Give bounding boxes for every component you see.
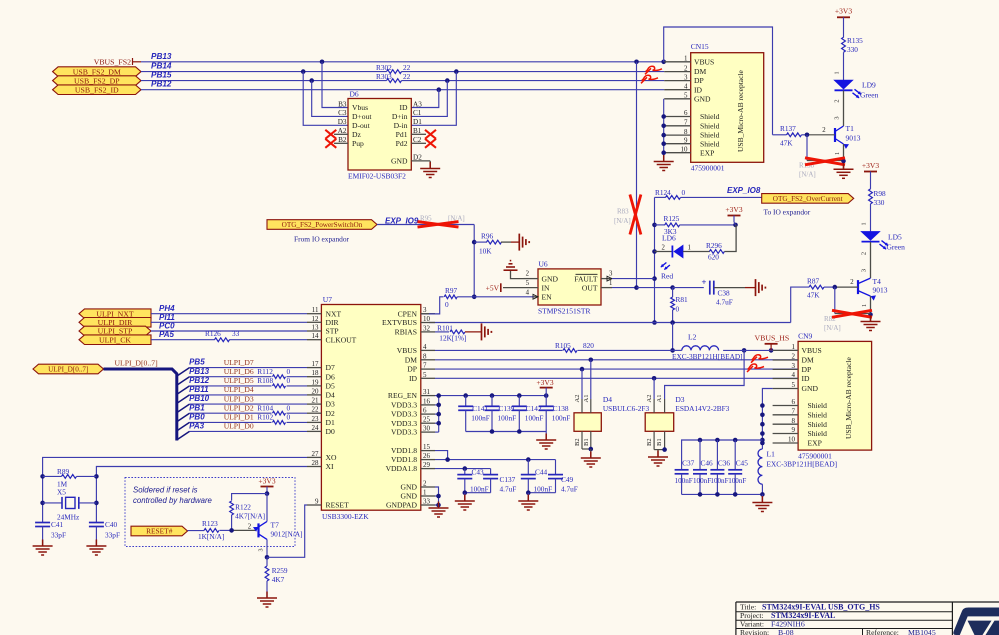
capacitor C45 100nF [728,440,748,494]
led LD5 Green [861,232,906,278]
wire PC0 / ULPI_STP [151,322,307,332]
svg-text:5: 5 [792,381,796,389]
svg-text:10: 10 [681,145,689,153]
ground below D3 [657,451,659,458]
svg-text:Vbus: Vbus [352,103,368,112]
svg-text:IN: IN [542,283,551,292]
svg-text:PB11: PB11 [189,385,209,394]
capacitor C141 100nF [458,396,490,432]
svg-text:PA5: PA5 [159,330,175,339]
svg-text:C49: C49 [561,475,574,484]
svg-text:3: 3 [258,548,265,551]
svg-text:330: 330 [847,45,858,54]
svg-text:10: 10 [423,315,431,323]
svg-text:+3V3: +3V3 [258,476,275,485]
svg-text:Pd2: Pd2 [396,139,408,148]
svg-text:28: 28 [312,459,320,467]
wire PB14 / DM net with series resistor [141,62,664,74]
svg-text:2: 2 [834,99,841,102]
svg-text:C46: C46 [701,458,714,467]
wire PB5 / ULPI_D7 [177,358,307,376]
ground at CN15 shield [663,155,665,162]
resistor R101 12K 1% at RBIAS [435,323,482,342]
svg-text:D7: D7 [326,363,335,372]
svg-text:L1: L1 [767,450,776,459]
svg-text:A1: A1 [583,395,590,403]
svg-text:[N/A]: [N/A] [799,171,816,179]
svg-text:3: 3 [684,73,688,81]
resistor R303 22 [376,72,411,83]
wire CN9 shield/GND tie [760,389,772,450]
wire FAULT vertical net [652,197,657,324]
transistor T4 9013 [850,277,887,321]
svg-text:1: 1 [609,280,612,287]
resistor R87 47K [791,276,858,322]
svg-text:ID: ID [399,103,408,112]
wire C43/C137 ground rail [463,490,491,500]
svg-text:R112: R112 [257,367,273,376]
power +3V3 at VDD3.3 caps [536,378,553,396]
svg-text:100nF: 100nF [710,477,728,485]
dashed option box [125,478,295,547]
svg-text:11: 11 [312,306,319,314]
svg-text:1: 1 [688,244,691,251]
svg-text:620: 620 [708,252,719,261]
svg-text:2: 2 [423,480,427,488]
svg-text:13: 13 [312,324,320,332]
svg-text:D6: D6 [350,90,359,99]
wire VDDA1.8 net [435,466,491,474]
ground right of R96 [518,234,520,251]
bus ULPI_D [104,369,177,441]
capacitor C142 100nF [512,396,544,432]
ground below R259 [266,592,268,599]
svg-text:PB1: PB1 [189,403,205,412]
svg-text:VDDA1.8: VDDA1.8 [386,464,418,473]
wire PB12 / ID net [141,80,664,92]
svg-text:4K7[N/A]: 4K7[N/A] [235,512,265,521]
svg-text:A2: A2 [338,127,347,135]
tag ULPI_CK [79,335,151,345]
svg-text:ULPI_D7: ULPI_D7 [224,358,254,367]
svg-text:3: 3 [834,116,841,119]
svg-text:ULPI_D[0..7]: ULPI_D[0..7] [115,358,158,367]
svg-text:VDD3.3: VDD3.3 [391,428,417,437]
svg-text:26: 26 [423,452,431,460]
ST logo [953,608,999,635]
svg-text:8: 8 [423,352,427,360]
power +3V3 at R135 [835,7,852,38]
ground below L1 rail [761,496,763,503]
svg-text:9012[N/A]: 9012[N/A] [271,529,303,538]
ground below C43 [464,495,466,502]
svg-text:VBUS: VBUS [694,57,714,66]
svg-text:B3: B3 [338,100,347,108]
svg-text:CN9: CN9 [798,331,812,340]
svg-text:LD6: LD6 [662,234,676,243]
ground right of R101 [481,323,483,340]
svg-text:R105: R105 [555,341,571,350]
svg-text:33pF: 33pF [51,530,66,539]
svg-text:B1: B1 [413,127,422,135]
wire DM row [435,358,798,363]
svg-text:31: 31 [423,388,431,396]
resistor R108 0 [257,376,290,388]
svg-text:GNDPAD: GNDPAD [386,501,417,510]
svg-text:B-08: B-08 [778,628,794,635]
capacitor C139 100nF [485,396,517,432]
svg-text:RBIAS: RBIAS [395,328,417,337]
svg-text:R108: R108 [257,376,273,385]
svg-text:C142: C142 [526,404,542,413]
svg-text:1: 1 [423,489,427,497]
no-fit X on D6 pin A2 [325,130,336,139]
svg-text:2: 2 [684,64,688,72]
svg-text:C38: C38 [718,288,731,297]
svg-text:LD5: LD5 [888,233,902,242]
capacitor C44 100nF [521,460,552,494]
svg-text:5: 5 [526,280,530,287]
svg-text:Shield: Shield [808,401,828,410]
resistor R96 10K [474,231,519,255]
svg-text:CPEN: CPEN [398,309,418,318]
svg-text:PB0: PB0 [189,413,205,422]
svg-text:D1: D1 [326,418,335,427]
resistor R135 330 [834,36,864,80]
svg-text:D+out: D+out [352,112,372,121]
svg-text:FAULT: FAULT [574,274,598,283]
wire PB10 / ULPI_D3 [177,394,307,412]
svg-text:GND: GND [694,94,711,103]
tag OTG_FS2_OverCurrent [762,194,854,217]
wire PB13 / ULPI_D6 with R112 [177,367,307,385]
svg-text:USB_FS2_DM: USB_FS2_DM [73,67,121,76]
svg-text:PB5: PB5 [189,358,205,367]
svg-text:PI11: PI11 [159,313,175,322]
svg-text:Revision:: Revision: [740,628,769,635]
title block [736,602,999,635]
svg-text:REG_EN: REG_EN [388,391,418,400]
svg-text:C40: C40 [105,520,118,529]
svg-text:PC0: PC0 [159,322,175,331]
svg-text:15: 15 [423,443,431,451]
inductor L1 EXC-3BP121H[BEAD] [758,449,837,494]
ground below D4 [590,452,592,459]
no-fit resistor R82 crossed out [824,287,872,332]
svg-text:1: 1 [834,71,841,74]
svg-text:ULPI_CK: ULPI_CK [99,335,131,344]
svg-text:OUT: OUT [582,283,598,292]
svg-text:R96: R96 [481,231,494,240]
svg-text:CN15: CN15 [691,42,709,51]
inductor L2 EXC-3BP121H[BEAD] [672,332,743,361]
capacitor C46 100nF [693,440,713,494]
svg-text:A2: A2 [574,395,581,403]
svg-text:+3V3: +3V3 [536,378,553,387]
resistor R89 1M [43,467,97,489]
svg-text:D4: D4 [603,395,612,404]
svg-text:100nF: 100nF [471,414,490,423]
svg-text:3: 3 [609,271,613,278]
no-fit X on D6 pin B2 [325,139,336,148]
svg-text:USB_FS2_DP: USB_FS2_DP [74,76,120,85]
svg-text:B2: B2 [646,438,653,446]
svg-text:4.7uF: 4.7uF [716,298,733,307]
resistor R296 620 [683,225,736,261]
svg-text:R296: R296 [706,241,722,250]
wire VBUS_HS row with R105 [435,348,798,353]
svg-text:EXP: EXP [700,148,714,157]
svg-text:2: 2 [248,524,252,531]
svg-text:A2: A2 [646,395,653,403]
svg-text:100nF: 100nF [534,484,553,493]
svg-text:9: 9 [792,426,796,434]
svg-text:0: 0 [676,305,680,314]
svg-text:Shield: Shield [808,429,828,438]
power +3V3 at T7 [258,476,275,496]
svg-text:PB13: PB13 [151,52,172,61]
svg-text:A3: A3 [413,100,422,108]
svg-text:R89: R89 [57,467,70,476]
svg-text:2: 2 [822,127,826,134]
svg-text:PA3: PA3 [189,422,205,431]
wire PB11 / ULPI_D4 [177,385,307,403]
svg-text:DM: DM [694,67,706,76]
resistor R122 4K7 N/A [230,494,267,531]
wire DM to D6 pin D1 [411,72,456,126]
svg-text:ID: ID [409,374,418,383]
wire PB12 / ULPI_D5 with R108 [177,376,307,394]
resistor R125 3K3 [655,214,738,236]
svg-text:VBUS_FS2: VBUS_FS2 [94,57,131,66]
wire VDD3.3 cap ground rail [466,429,547,439]
svg-text:0: 0 [287,376,291,385]
svg-text:9: 9 [315,498,319,506]
svg-text:PB12: PB12 [151,80,172,89]
svg-text:T7: T7 [271,521,280,530]
svg-text:VDD3.3: VDD3.3 [391,419,417,428]
wire VBUS down to U6 OUT [636,62,638,288]
led LD6 Red [655,234,691,281]
svg-text:C43: C43 [472,467,485,476]
svg-text:VBUS: VBUS [802,346,822,355]
svg-text:ULPI_D4: ULPI_D4 [224,385,254,394]
svg-text:0: 0 [287,404,291,413]
tag RESET# [131,526,188,536]
svg-text:A1: A1 [656,395,663,403]
no-ERC marker CN15 pin 2 [645,68,651,74]
svg-text:24: 24 [312,424,320,432]
svg-text:R83: R83 [617,208,629,216]
svg-text:D5: D5 [326,382,335,391]
svg-text:XO: XO [326,453,337,462]
svg-text:7: 7 [423,362,427,370]
svg-text:EXP: EXP [808,439,822,448]
svg-text:0: 0 [287,367,291,376]
svg-text:Green: Green [860,91,879,100]
svg-text:Shield: Shield [808,410,828,419]
svg-text:16: 16 [423,397,431,405]
svg-text:R125: R125 [664,214,680,223]
svg-text:ESDA14V2-2BF3: ESDA14V2-2BF3 [675,404,729,413]
svg-text:controlled by hardware: controlled by hardware [133,496,213,505]
resistor R259 4K7 [265,557,288,597]
wire DP to D6 pin C1 [411,81,447,117]
svg-text:B2: B2 [574,438,581,446]
svg-text:2: 2 [792,353,796,361]
svg-text:D+in: D+in [392,112,408,121]
svg-text:9013: 9013 [846,134,861,143]
svg-text:D6: D6 [326,372,335,381]
resistor R126 33 [205,329,240,342]
svg-text:10: 10 [788,436,796,444]
wire OUT net from U6 [612,285,704,290]
wire shield cap rail top [682,438,763,470]
svg-text:ID: ID [694,85,703,94]
svg-text:D2: D2 [413,154,422,162]
svg-text:B1: B1 [656,438,663,446]
svg-text:PB14: PB14 [151,62,172,71]
resistor R98 330 [861,189,887,232]
svg-text:100nF: 100nF [693,477,711,485]
power +3V3 at R98 [862,161,879,189]
power +3V3 at R125 [725,205,742,225]
ground below C138 [545,434,547,441]
svg-text:ULPI_D1: ULPI_D1 [224,413,254,422]
svg-text:LD9: LD9 [862,81,876,90]
resistor R123 1K N/A [188,519,256,541]
svg-text:VBUS: VBUS [397,346,417,355]
ground at T4 emitter [870,315,872,322]
svg-text:9013: 9013 [873,286,888,295]
svg-text:OTG_FS2_PowerSwitchOn: OTG_FS2_PowerSwitchOn [282,221,363,229]
svg-text:4: 4 [423,343,427,351]
svg-text:330: 330 [874,198,885,207]
svg-text:20: 20 [312,387,320,395]
svg-text:D3: D3 [675,395,684,404]
svg-text:X5: X5 [57,488,66,497]
svg-text:3: 3 [792,362,796,370]
svg-text:2: 2 [662,244,666,251]
note soldered if reset [133,486,213,506]
wire XI net [94,467,307,523]
svg-text:47K: 47K [807,290,820,299]
svg-text:L2: L2 [688,332,697,341]
svg-text:CLKOUT: CLKOUT [326,335,357,344]
svg-text:33: 33 [423,498,431,506]
svg-text:17: 17 [312,360,320,368]
svg-text:R137: R137 [780,124,796,133]
svg-text:Shield: Shield [700,121,720,130]
svg-text:6: 6 [423,407,427,415]
svg-text:4: 4 [526,289,530,296]
svg-text:100nF: 100nF [498,414,517,423]
svg-text:7: 7 [792,408,796,416]
svg-text:R124: R124 [655,188,671,197]
svg-text:1: 1 [861,304,868,307]
svg-text:C1: C1 [413,109,422,117]
svg-text:Red: Red [661,272,673,281]
svg-text:RESET: RESET [326,501,350,510]
power flag VBUS_HS [755,333,790,350]
svg-text:D2: D2 [326,409,335,418]
svg-text:R81: R81 [676,295,689,304]
svg-text:C139: C139 [499,404,515,413]
svg-text:6: 6 [684,109,688,117]
svg-text:C3: C3 [338,109,347,117]
svg-text:D-in: D-in [394,121,408,130]
svg-text:Shield: Shield [808,420,828,429]
resistor R81 0 [671,288,688,323]
svg-text:18: 18 [312,369,320,377]
wire PB15 / DP net with series resistor [141,71,664,83]
esd diode D3 ESDA14V2-2BF3 [645,350,744,456]
svg-text:33pF: 33pF [105,530,120,539]
svg-text:475900001: 475900001 [691,164,725,173]
wire DM to D6 pin D3 [303,72,348,126]
transistor T7 9012 N/A [248,494,303,560]
svg-text:R87: R87 [807,276,820,285]
svg-text:STP: STP [326,327,339,336]
svg-text:XI: XI [326,462,334,471]
svg-text:[N/A]: [N/A] [614,217,631,225]
svg-text:6: 6 [792,398,796,406]
no-ERC marker CN15 pin 3 [641,77,647,83]
svg-text:22: 22 [403,63,411,72]
svg-text:0: 0 [682,188,686,197]
svg-text:22: 22 [403,72,411,81]
svg-text:23: 23 [312,415,320,423]
svg-text:USBULC6-2F3: USBULC6-2F3 [603,404,650,413]
svg-text:GND: GND [391,157,408,166]
svg-text:D3: D3 [338,118,347,126]
power flag VBUS_FS2 [94,57,141,66]
inverted ground at U6 GND pin [504,261,524,279]
svg-text:ULPI_D3: ULPI_D3 [224,394,254,403]
power +5V at U6 IN [486,283,501,292]
svg-text:D1: D1 [413,118,422,126]
svg-text:0: 0 [445,300,449,309]
tag ULPI_NXT [79,309,151,319]
svg-text:30: 30 [423,425,431,433]
svg-text:C41: C41 [51,520,64,529]
svg-text:+5V: +5V [486,283,500,292]
wire VBUS over CN15 to R137 [664,27,773,135]
capacitor C137 4.7uF [483,475,516,494]
capacitor C43 100nF [457,467,488,493]
svg-text:R302: R302 [376,63,392,72]
svg-text:25: 25 [423,416,431,424]
svg-text:GND: GND [542,274,559,283]
svg-text:USB_FS2_ID: USB_FS2_ID [75,85,119,94]
wire C44/C49 ground rail [526,490,556,500]
no-fit X on D6 pin C2 [425,139,436,148]
svg-text:U7: U7 [323,295,332,304]
usb phy U7 USB3300-EZK [307,295,435,521]
svg-text:PB12: PB12 [189,376,210,385]
svg-text:EXC-3BP121H[BEAD]: EXC-3BP121H[BEAD] [767,459,838,468]
ground below C41 [42,540,44,547]
svg-text:D0: D0 [326,427,335,436]
wire EN to U6 [474,296,534,298]
svg-text:820: 820 [583,341,594,350]
tag ULPI_DIR [79,318,151,328]
svg-text:R98: R98 [874,189,887,198]
svg-text:VBUS_HS: VBUS_HS [755,333,790,342]
svg-text:1: 1 [834,152,841,155]
wire XO net [40,457,307,522]
svg-text:EXTVBUS: EXTVBUS [382,318,417,327]
